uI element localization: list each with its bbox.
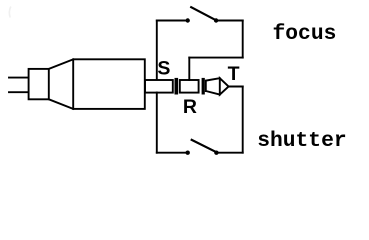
- svg-text:R: R: [183, 96, 197, 118]
- svg-text:shutter: shutter: [257, 129, 346, 153]
- svg-text:focus: focus: [273, 22, 337, 46]
- svg-text:S: S: [157, 57, 170, 79]
- svg-text:T: T: [228, 63, 240, 85]
